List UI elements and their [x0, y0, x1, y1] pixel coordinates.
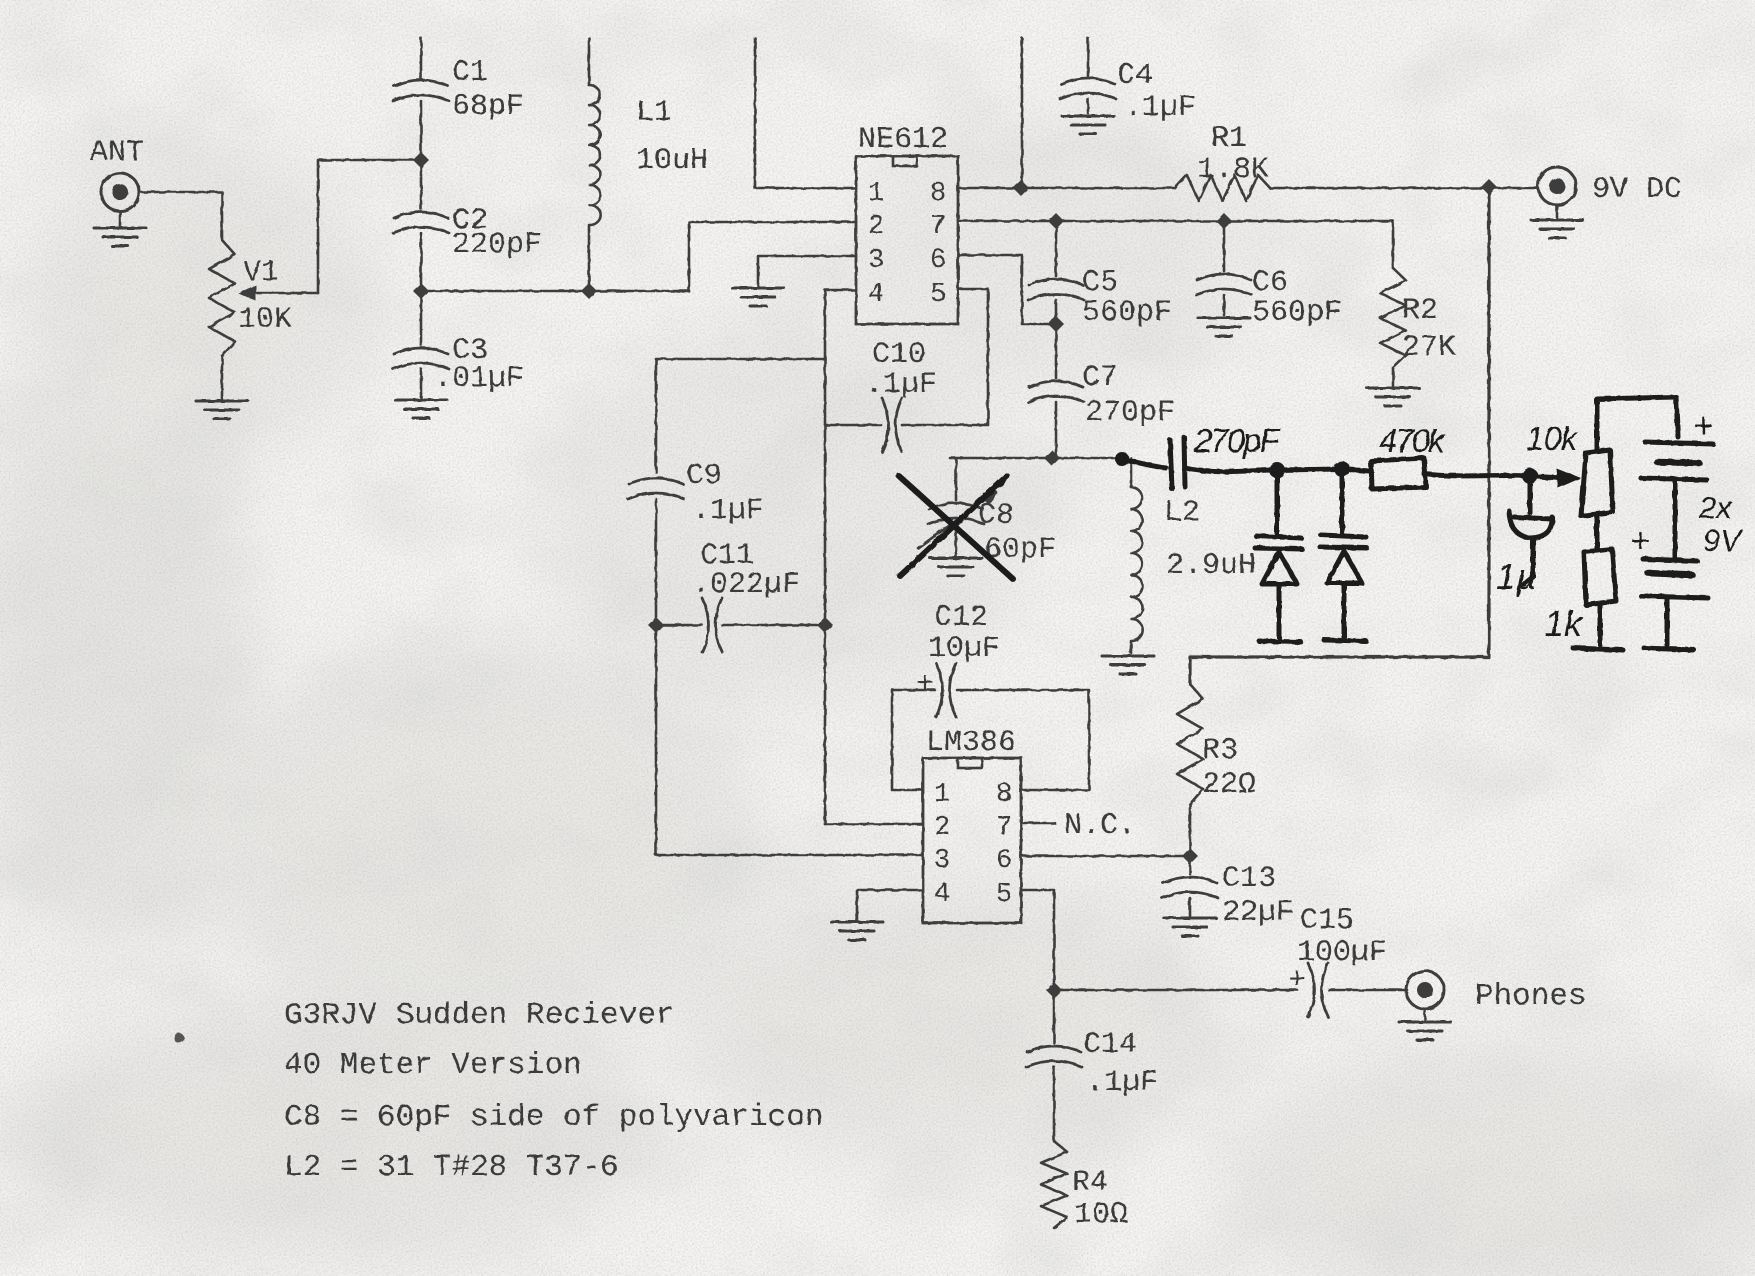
text title line 3 [284, 1100, 824, 1135]
svg-text:C4: C4 [1117, 59, 1153, 93]
svg-text:R2: R2 [1402, 294, 1438, 328]
svg-text:Phones: Phones [1475, 979, 1587, 1014]
capacitor C14 .1uF [1026, 990, 1158, 1141]
svg-text:C8: C8 [978, 499, 1014, 533]
svg-text:N.C.: N.C. [1064, 809, 1136, 843]
text title line 2 [284, 1048, 582, 1083]
capacitor C8 60pF variable (crossed out) [918, 458, 1056, 567]
ground (LM386 pin4) [831, 922, 883, 940]
wire top stub [1021, 38, 1024, 188]
wire RF node to pin2 riser [421, 290, 689, 293]
svg-text:V1: V1 [243, 256, 279, 290]
hand capacitor branch2 plates [1320, 535, 1367, 548]
pin 3 label NE612 [868, 246, 884, 276]
pin 5 label LM386 [996, 880, 1012, 910]
capacitor C10 .1uF [825, 338, 937, 452]
ground (NE612 pin3) [732, 288, 784, 306]
svg-text:1: 1 [934, 780, 950, 810]
hand node junction 1u branch [1522, 468, 1538, 484]
svg-text:2: 2 [868, 212, 884, 242]
hand wire 1k bottom [1573, 605, 1623, 650]
hand diode branch2 [1327, 551, 1362, 583]
svg-text:10Ω: 10Ω [1074, 1198, 1128, 1232]
svg-text:C7: C7 [1082, 361, 1118, 395]
wire NE612 pin8 to supply rail [958, 187, 1175, 190]
svg-text:22Ω: 22Ω [1202, 768, 1256, 802]
node junction C9 rail / C11 [648, 617, 664, 633]
ground (below C8) [930, 558, 982, 576]
svg-text:9V: 9V [1703, 523, 1744, 558]
capacitor C3 .01uF [393, 291, 524, 398]
svg-text:7: 7 [996, 813, 1012, 843]
hand wire 270pF to 470k [1185, 468, 1369, 472]
svg-text:C9: C9 [686, 459, 722, 493]
node junction C2/C3 main RF node [413, 283, 429, 299]
pin 2 label NE612 [868, 212, 884, 242]
capacitor C15 100uF [1288, 904, 1407, 1017]
svg-text:5: 5 [996, 880, 1012, 910]
node junction pin4 rail / C11 [817, 617, 833, 633]
svg-text:.1µF: .1µF [865, 368, 937, 402]
svg-text:220pF: 220pF [452, 228, 542, 262]
wire LM386 pin4 to ground [857, 890, 923, 920]
capacitor C9 .1uF [628, 459, 764, 855]
node junction C1/C2/V1 wiper [413, 152, 429, 168]
svg-text:22µF: 22µF [1222, 896, 1294, 930]
hand potentiometer 10k [1526, 420, 1613, 516]
ground (below 9V terminal) [1531, 205, 1583, 238]
wire V1 bottom lead [221, 356, 224, 399]
ground (below C6) [1198, 318, 1250, 336]
svg-text:27K: 27K [1402, 331, 1456, 365]
svg-text:10K: 10K [238, 303, 292, 337]
pin 6 label NE612 [930, 246, 946, 276]
hand wire branch2 top [1340, 469, 1345, 535]
svg-text:C15: C15 [1300, 904, 1354, 938]
svg-text:C13: C13 [1222, 862, 1276, 896]
pin 3 label LM386 [934, 846, 950, 876]
text title line 1 [284, 998, 675, 1033]
svg-text:NE612: NE612 [858, 123, 948, 157]
node junction pin8 / top stub [1013, 180, 1029, 196]
svg-text:6: 6 [930, 246, 946, 276]
node junction C7/osc line [1044, 450, 1060, 466]
svg-text:C1: C1 [452, 56, 488, 90]
text title line 4 [284, 1150, 619, 1185]
svg-text:8: 8 [930, 179, 946, 209]
svg-text:2: 2 [934, 813, 950, 843]
wire oscillator node [950, 457, 1122, 460]
pin 8 label LM386 [996, 780, 1012, 810]
ground (below L2) [1102, 656, 1154, 674]
node junction pin5/C14/C15 [1046, 982, 1062, 998]
node junction 9V rail [1481, 179, 1497, 195]
hand wire branch1 bottom [1259, 584, 1301, 642]
svg-text:4: 4 [868, 280, 884, 310]
ground (below R2) [1367, 388, 1419, 406]
wire NE612 pin4 down left rail [656, 290, 856, 824]
capacitor C11 .022uF [656, 539, 825, 652]
wire RF node to NE612 pin2 [689, 222, 856, 291]
capacitor C7 270pF [1028, 324, 1175, 458]
hand wire battery bottom [1644, 599, 1694, 650]
wire NE612 pin7 rail [958, 220, 1393, 223]
potentiometer V1 10K [209, 240, 318, 356]
svg-text:LM386: LM386 [926, 726, 1016, 760]
svg-text:40 Meter Version: 40 Meter Version [284, 1048, 582, 1083]
svg-text:R1: R1 [1211, 122, 1247, 156]
wire rail to LM386 pin3 [656, 854, 923, 857]
svg-text:.01µF: .01µF [434, 362, 524, 396]
hand X cross over C8 [899, 476, 1013, 579]
ground (below ANT) [94, 211, 146, 246]
pin 2 label LM386 [934, 813, 950, 843]
capacitor C6 560pF [1196, 221, 1342, 330]
svg-text:3: 3 [868, 246, 884, 276]
pin 4 label LM386 [934, 880, 950, 910]
ground (below Phones) [1399, 1009, 1451, 1040]
svg-text:1k: 1k [1544, 603, 1584, 644]
ground (below V1) [196, 401, 248, 419]
svg-text:1µ: 1µ [1496, 556, 1537, 597]
svg-text:68pF: 68pF [452, 90, 524, 124]
hand wire 470k to pot [1424, 468, 1581, 488]
hand capacitor 1u [1496, 476, 1552, 597]
inductor L1 10uH [589, 38, 708, 291]
hand wire branch2 bottom [1324, 583, 1366, 641]
wire output line to C15 [1054, 989, 1297, 992]
svg-text:10µF: 10µF [928, 632, 1000, 666]
svg-text:3: 3 [934, 846, 950, 876]
wire LM386 pin5 down [1021, 890, 1054, 990]
resistor R3 22ohm [1177, 684, 1256, 856]
svg-text:2.9uH: 2.9uH [1166, 549, 1256, 583]
pin 7 label NE612 [930, 212, 946, 242]
capacitor C12 10uF gain loop [892, 601, 1089, 790]
wire NE612 pin6 to C5/C7 node [958, 255, 1052, 324]
svg-text:L1: L1 [636, 96, 672, 130]
pin 4 label NE612 [868, 280, 884, 310]
inductor L2 2.9uH [1131, 458, 1256, 653]
svg-text:L2: L2 [1164, 496, 1200, 530]
svg-text:+: + [1693, 407, 1713, 445]
hand capacitor branch1 plates [1255, 536, 1302, 549]
hand diode branch1 [1262, 552, 1297, 584]
hand node junction detector branch 1 [1269, 462, 1285, 478]
terminal ANT (antenna input) [90, 136, 144, 211]
node junction L1 bottom [581, 283, 597, 299]
ground (below C4) [1062, 116, 1114, 134]
capacitor C5 560pF [1028, 221, 1172, 330]
wire top rail to NE612 pin1 [755, 38, 856, 188]
pin 1 label NE612 [868, 179, 884, 209]
resistor R4 10ohm [1041, 1141, 1128, 1232]
hand wire branch1 top [1275, 470, 1280, 536]
pin 5 label NE612 [930, 280, 946, 310]
svg-text:C10: C10 [872, 338, 926, 372]
svg-text:.1µF: .1µF [1086, 1066, 1158, 1100]
pin 6 label LM386 [996, 846, 1012, 876]
svg-text:1.8K: 1.8K [1197, 153, 1269, 187]
pin 7 label LM386 [996, 813, 1012, 843]
svg-text:.1µF: .1µF [692, 494, 764, 528]
wire LM386 pin6 to R3/C13 node [1021, 855, 1190, 858]
svg-text:C6: C6 [1252, 266, 1288, 300]
svg-text:560pF: 560pF [1252, 296, 1342, 330]
svg-text:10k: 10k [1526, 420, 1579, 457]
svg-text:C5: C5 [1082, 266, 1118, 300]
svg-text:4: 4 [934, 880, 950, 910]
hand capacitor 270pF [1170, 422, 1281, 489]
hand wire pot top to battery [1597, 397, 1678, 451]
wire V1 wiper up to C1/C2 node [318, 160, 414, 293]
wire R1 to 9V terminal [1270, 187, 1538, 190]
hand battery 2x 9V cell 1 [1641, 407, 1713, 480]
node junction pin7/C6 [1216, 213, 1232, 229]
svg-text:1: 1 [868, 179, 884, 209]
svg-text:.022µF: .022µF [692, 568, 800, 602]
svg-text:100µF: 100µF [1297, 936, 1387, 970]
svg-text:+: + [916, 668, 934, 702]
op-amp IC U2 LM386 [923, 726, 1021, 923]
terminal 9V DC [1538, 167, 1682, 207]
ink speck artifact [174, 1033, 184, 1043]
svg-text:L2 = 31 T#28 T37-6: L2 = 31 T#28 T37-6 [284, 1150, 619, 1185]
hand node junction detector branch 2 [1334, 461, 1350, 477]
wire ANT to V1 top [139, 192, 222, 240]
svg-text:C8 = 60pF side of polyvaricon: C8 = 60pF side of polyvaricon [284, 1100, 824, 1135]
hand resistor 1k [1544, 514, 1616, 644]
wire C1 node to C2 [420, 160, 423, 209]
svg-text:270pF: 270pF [1085, 396, 1175, 430]
svg-text:5: 5 [930, 280, 946, 310]
wire rail to LM386 pin2 [825, 823, 923, 826]
svg-text:9V DC: 9V DC [1592, 173, 1682, 207]
hand battery 2x 9V cell 2 [1630, 490, 1744, 598]
hand wire osc node to 270pF cap [1115, 452, 1166, 468]
svg-text:C14: C14 [1083, 1028, 1137, 1062]
svg-text:+: + [1630, 522, 1650, 560]
svg-text:.1µF: .1µF [1124, 91, 1196, 125]
node junction C5/C7/pin6 [1048, 316, 1064, 332]
svg-text:7: 7 [930, 212, 946, 242]
ground (below C3) [395, 400, 447, 418]
node junction R3/C13/pin6 [1182, 848, 1198, 864]
svg-text:10uH: 10uH [636, 144, 708, 178]
wire NE612 pin5 to C10 [902, 289, 988, 425]
capacitor C4 .1uF [1060, 38, 1196, 125]
svg-text:470k: 470k [1379, 422, 1446, 459]
svg-text:G3RJV Sudden Reciever: G3RJV Sudden Reciever [284, 998, 675, 1033]
terminal Phones [1406, 971, 1587, 1014]
capacitor C2 220pF [393, 204, 542, 286]
hand wire between cells [1673, 481, 1678, 558]
wire LM386 pin7 N.C. stub [1021, 809, 1136, 843]
node junction pin7/C5 [1048, 213, 1064, 229]
svg-text:270pF: 270pF [1193, 422, 1281, 459]
svg-text:R4: R4 [1072, 1166, 1108, 1200]
svg-text:2x: 2x [1698, 490, 1733, 525]
svg-text:R3: R3 [1202, 734, 1238, 768]
svg-text:8: 8 [996, 780, 1012, 810]
wire NE612 pin3 to ground [758, 256, 856, 286]
svg-text:6: 6 [996, 846, 1012, 876]
resistor R2 27K [1380, 221, 1456, 386]
capacitor C13 22uF [1162, 856, 1294, 930]
hand resistor 470k [1371, 422, 1446, 489]
pin 1 label LM386 [934, 780, 950, 810]
pin 8 label NE612 [930, 179, 946, 209]
wire 9V rail down to audio stage [1190, 187, 1489, 684]
resistor R1 1.8K [1175, 122, 1270, 201]
ground (below C13) [1164, 918, 1216, 936]
svg-text:C12: C12 [934, 601, 988, 635]
op-amp/mixer IC U1 NE612 [856, 123, 958, 324]
capacitor C1 68pF [393, 38, 524, 155]
svg-text:560pF: 560pF [1082, 296, 1172, 330]
svg-text:ANT: ANT [90, 136, 144, 170]
